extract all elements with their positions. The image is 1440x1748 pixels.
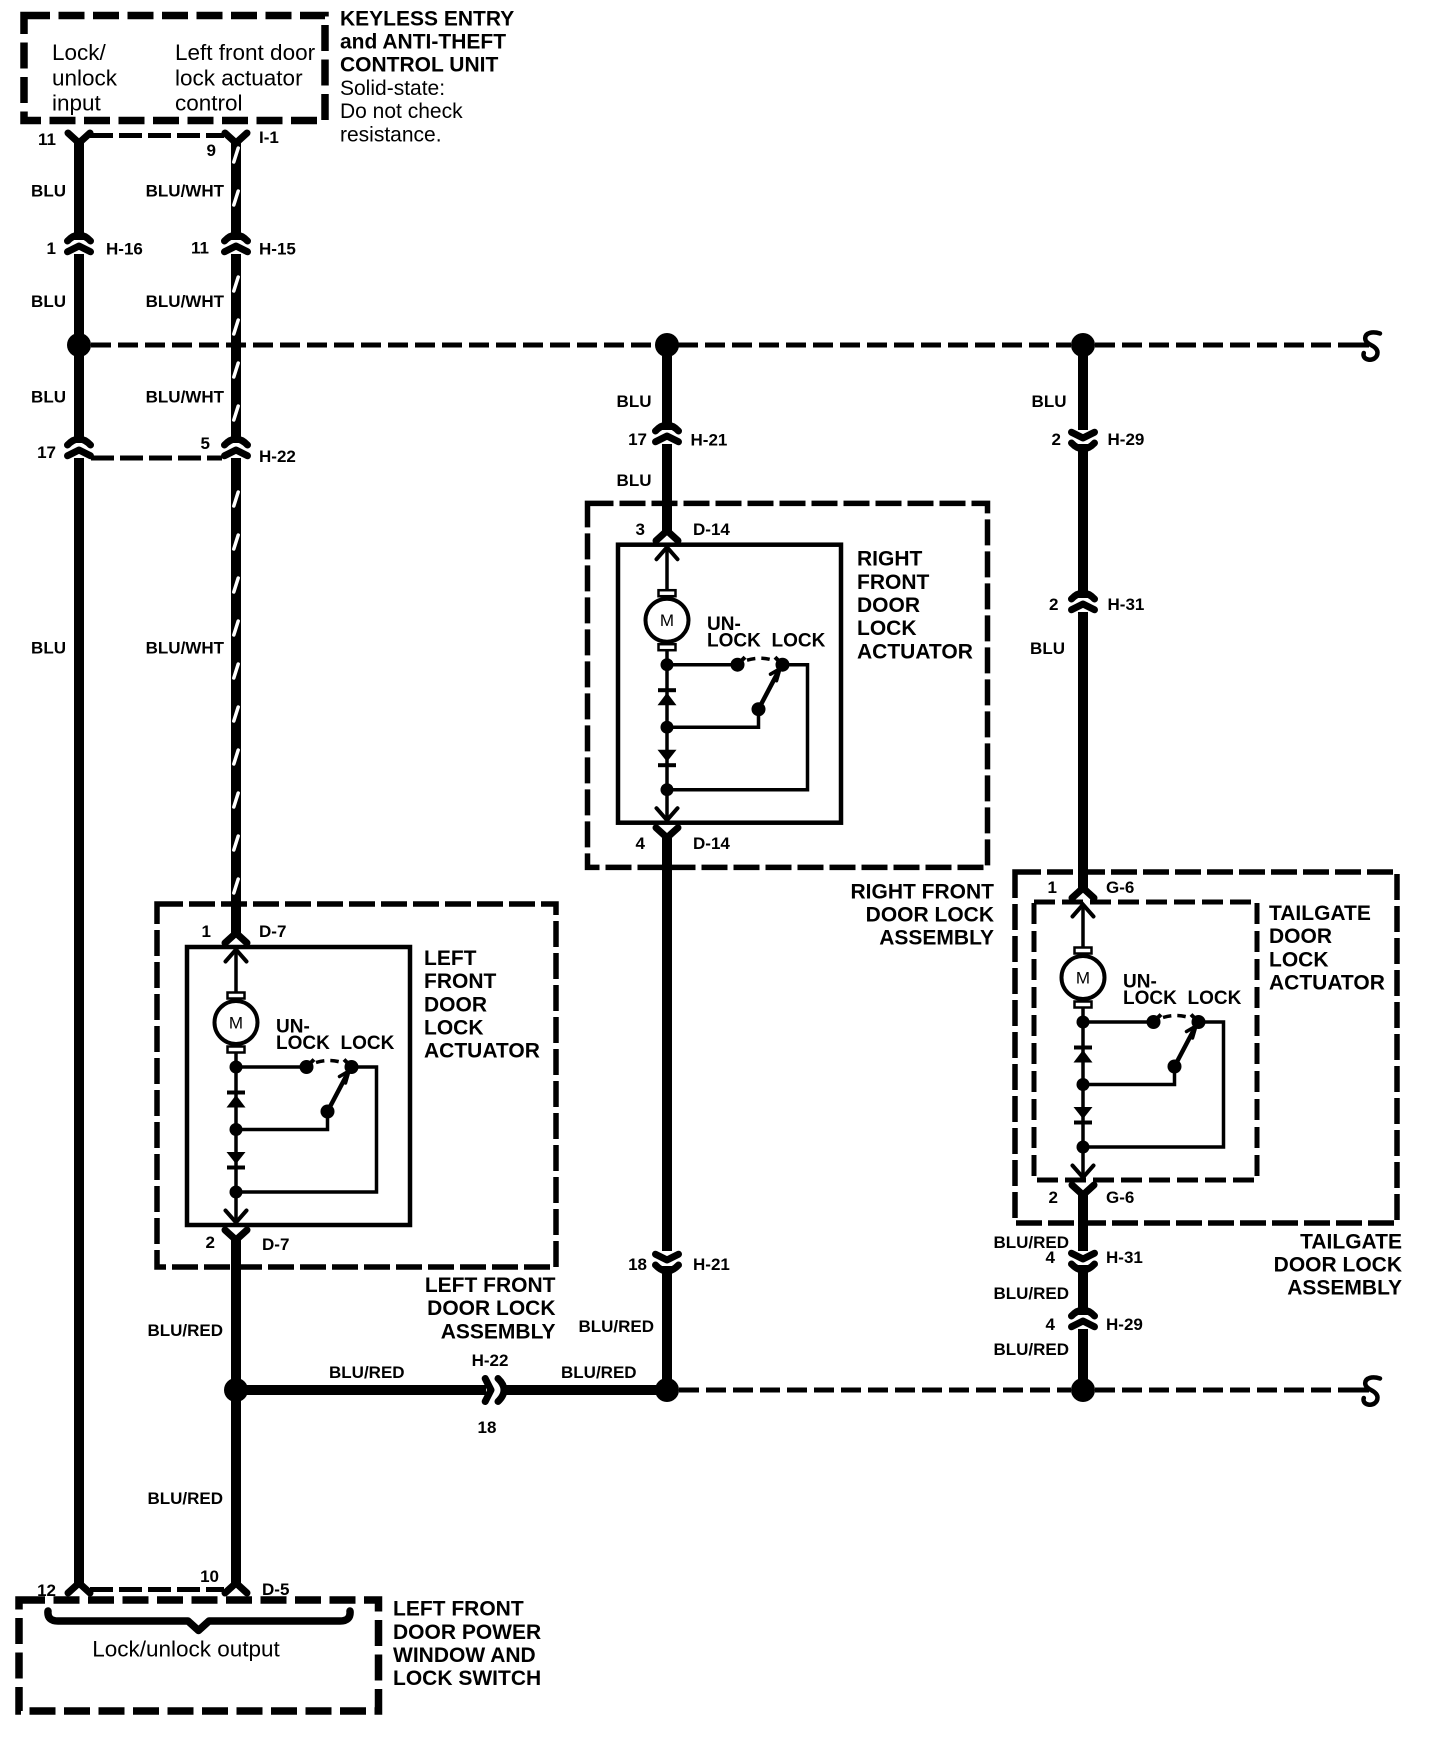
svg-text:WINDOW AND: WINDOW AND [393, 1644, 536, 1667]
left actuator junction dot A [230, 1061, 243, 1074]
left actuator diode D1 triangle [227, 1095, 246, 1108]
svg-text:LEFT: LEFT [424, 947, 477, 970]
right actuator UN-LOCK contact dot [731, 658, 745, 672]
right actuator arrowhead up at pin 1 [657, 547, 678, 559]
svg-text:D-7: D-7 [259, 922, 286, 941]
svg-text:1: 1 [202, 922, 211, 941]
connector H-15 [225, 235, 248, 241]
tailgate actuator UN-LOCK contact stub [1154, 1015, 1162, 1023]
svg-text:BLU: BLU [617, 392, 652, 411]
svg-text:LEFT FRONT: LEFT FRONT [393, 1598, 524, 1621]
left actuator switch travel dashed arc [316, 1061, 342, 1063]
left actuator switch pivot dot [321, 1105, 335, 1119]
pin 10 flare [225, 1583, 247, 1593]
svg-text:lock actuator: lock actuator [175, 65, 303, 90]
right actuator UN-LOCK contact stub [738, 657, 746, 665]
svg-text:4: 4 [1046, 1248, 1056, 1267]
svg-text:LOCK: LOCK [1188, 988, 1242, 1009]
tailgate actuator wire motor to bottom [1081, 1008, 1085, 1179]
svg-text:BLU/RED: BLU/RED [993, 1233, 1069, 1252]
svg-text:Solid-state:: Solid-state: [340, 77, 445, 100]
svg-text:BLU/RED: BLU/RED [147, 1489, 223, 1508]
tailgate actuator diode D2 triangle [1074, 1107, 1093, 1119]
right actuator diode D1 cathode bar [658, 688, 676, 692]
svg-text:and ANTI-THEFT: and ANTI-THEFT [340, 31, 506, 54]
wire BLU right seg2 [1078, 444, 1088, 598]
wire BLU/WHT seg1 [231, 143, 241, 240]
svg-text:H-22: H-22 [472, 1351, 509, 1370]
wire BLU/RED horizontal right [501, 1385, 667, 1395]
tailgate actuator wire branch to switch pivot [1083, 1067, 1175, 1085]
right actuator LOCK contact dot [776, 658, 790, 672]
right actuator wire branch to switch pivot [667, 709, 759, 727]
svg-text:control: control [175, 91, 243, 116]
junction dot W4-horizontal [1071, 1378, 1095, 1402]
svg-text:G-6: G-6 [1106, 878, 1134, 897]
dashed jumper 12 to 10 [90, 1587, 224, 1592]
pin 11 flare [68, 133, 90, 143]
svg-text:unlock: unlock [52, 65, 118, 90]
svg-text:DOOR LOCK: DOOR LOCK [866, 904, 994, 927]
svg-text:2: 2 [206, 1233, 215, 1252]
svg-text:BLU: BLU [31, 388, 66, 407]
wire BLU/WHT seg3 [231, 458, 241, 933]
tailgate actuator diode D1 cathode bar [1074, 1046, 1092, 1050]
junction dot W3-horizontal [655, 1378, 679, 1402]
junction dot W4-bus [1071, 333, 1095, 357]
tailgate actuator diode D2 cathode bar [1074, 1121, 1092, 1125]
wire BLU seg2 [74, 254, 84, 345]
svg-text:H-21: H-21 [691, 431, 728, 450]
left actuator arrowhead down at pin 2 [226, 1211, 247, 1223]
svg-text:LOCK SWITCH: LOCK SWITCH [393, 1667, 541, 1690]
svg-text:LEFT FRONT: LEFT FRONT [425, 1274, 556, 1297]
svg-text:BLU: BLU [1032, 392, 1067, 411]
svg-text:H-21: H-21 [693, 1255, 730, 1274]
right actuator actuator inner box [618, 545, 841, 823]
left actuator motor M circle [215, 1001, 258, 1044]
wire BLU mid seg1 [662, 345, 672, 430]
dashed bus segment 1 [91, 343, 656, 348]
tailgate actuator diode D1 triangle [1074, 1050, 1093, 1063]
tailgate actuator motor terminal bottom [1075, 1002, 1092, 1008]
svg-text:BLU: BLU [31, 639, 66, 658]
svg-text:Lock/unlock output: Lock/unlock output [92, 1637, 280, 1662]
left actuator switch blade [328, 1074, 348, 1112]
svg-text:H-22: H-22 [259, 447, 296, 466]
tailgate actuator UN-LOCK contact dot [1147, 1015, 1161, 1029]
left actuator wire branch to switch pivot [236, 1112, 328, 1130]
svg-text:Do not check: Do not check [340, 100, 463, 123]
wire BLU/RED right seg1 [1078, 1195, 1088, 1251]
left front door power window and lock switch box [19, 1600, 379, 1711]
svg-text:D-7: D-7 [262, 1235, 289, 1254]
svg-text:LOCK: LOCK [424, 1017, 484, 1040]
svg-text:Left front door: Left front door [175, 40, 316, 65]
right actuator diode D2 cathode bar [658, 763, 676, 767]
left actuator diode D2 triangle [227, 1152, 246, 1164]
svg-text:3: 3 [636, 520, 645, 539]
svg-text:DOOR LOCK: DOOR LOCK [427, 1297, 555, 1320]
right actuator motor terminal top [659, 590, 676, 596]
right actuator motor M circle [646, 599, 689, 642]
connector G-6 pin1 flare [1072, 888, 1094, 898]
tailgate actuator motor M circle [1062, 956, 1105, 999]
svg-text:Lock/: Lock/ [52, 40, 107, 65]
tailgate actuator junction dot C [1077, 1141, 1090, 1154]
svg-text:10: 10 [200, 1567, 219, 1586]
svg-text:H-15: H-15 [259, 240, 296, 259]
tailgate actuator switch blade arrowhead [1187, 1026, 1197, 1038]
junction dot W3-bus [655, 333, 679, 357]
connector D-7 pin2 flare [225, 1230, 247, 1240]
svg-text:CONTROL UNIT: CONTROL UNIT [340, 54, 498, 77]
left actuator actuator inner box [187, 947, 410, 1225]
svg-text:ASSEMBLY: ASSEMBLY [441, 1320, 556, 1343]
tailgate actuator motor terminal top [1075, 948, 1092, 954]
svg-text:18: 18 [478, 1418, 497, 1437]
left actuator diode D2 cathode bar [227, 1166, 245, 1170]
wire BLU/RED mid seg2 [662, 1266, 672, 1390]
left actuator UN-LOCK contact dot [300, 1060, 314, 1074]
svg-text:11: 11 [38, 130, 56, 149]
svg-text:BLU/RED: BLU/RED [561, 1363, 637, 1382]
left actuator LOCK contact stub [344, 1060, 352, 1068]
svg-text:BLU/RED: BLU/RED [993, 1284, 1069, 1303]
svg-text:17: 17 [628, 430, 647, 449]
wire BLU seg3 [74, 345, 84, 443]
svg-text:LOCK: LOCK [276, 1033, 330, 1054]
wire BLU/RED left seg2 [231, 1390, 241, 1583]
svg-text:TAILGATE: TAILGATE [1269, 902, 1371, 925]
svg-text:DOOR: DOOR [1269, 925, 1332, 948]
svg-text:H-16: H-16 [106, 240, 143, 259]
svg-text:LOCK: LOCK [772, 631, 826, 652]
connector H-22 horizontal [485, 1379, 491, 1402]
connector H-22 (pin5) [225, 439, 248, 445]
svg-text:M: M [229, 1014, 243, 1033]
tailgate actuator wire LOCK contact to right branch [1083, 1022, 1224, 1147]
tailgate actuator actuator inner box (dashed) [1034, 902, 1257, 1180]
svg-text:ASSEMBLY: ASSEMBLY [1287, 1277, 1402, 1300]
connector 17 (left wire) [68, 439, 91, 445]
svg-text:5: 5 [201, 434, 210, 453]
svg-text:BLU/RED: BLU/RED [578, 1317, 654, 1336]
junction dot W1-bus [67, 333, 91, 357]
svg-text:BLU/RED: BLU/RED [147, 1321, 223, 1340]
tailgate assembly dashed box [1015, 872, 1397, 1223]
connector H-29 (pin2) [1072, 443, 1095, 449]
svg-text:ACTUATOR: ACTUATOR [857, 640, 973, 663]
left actuator arrowhead up at pin 1 [226, 950, 247, 962]
svg-text:LOCK: LOCK [1123, 988, 1177, 1009]
wire BLU seg4 [74, 458, 84, 1583]
tailgate actuator wire branch to UN-LOCK contact [1083, 1020, 1154, 1024]
svg-text:FRONT: FRONT [857, 571, 929, 594]
keyless entry control unit box [24, 16, 325, 121]
dashed bus segment 3 [1095, 343, 1360, 348]
svg-text:H-31: H-31 [1106, 1248, 1143, 1267]
svg-text:1: 1 [1048, 878, 1057, 897]
svg-text:11: 11 [191, 239, 209, 258]
connector D-14 pin4 flare [656, 828, 678, 838]
connector H-21 (pin18) [656, 1265, 679, 1271]
svg-text:M: M [1076, 969, 1090, 988]
left actuator LOCK contact dot [345, 1060, 359, 1074]
left actuator UN-LOCK contact stub [307, 1060, 315, 1068]
tailgate actuator arrowhead down at pin 2 [1073, 1166, 1094, 1178]
svg-text:BLU/RED: BLU/RED [993, 1340, 1069, 1359]
svg-text:BLU: BLU [617, 471, 652, 490]
svg-text:2: 2 [1049, 1188, 1058, 1207]
wire BLU/RED horizontal left [236, 1385, 486, 1395]
svg-text:KEYLESS ENTRY: KEYLESS ENTRY [340, 7, 514, 30]
tailgate actuator LOCK contact dot [1192, 1015, 1206, 1029]
connector G-6 pin2 flare [1072, 1185, 1094, 1195]
dashed horizontal segment 2 [1095, 1388, 1360, 1393]
pin 9 flare [225, 133, 247, 143]
left assembly dashed box [157, 904, 556, 1267]
svg-text:D-14: D-14 [693, 520, 730, 539]
tailgate actuator switch blade [1175, 1029, 1195, 1067]
right actuator switch blade arrowhead [771, 669, 781, 681]
svg-text:4: 4 [636, 834, 646, 853]
wire BLU right seg1 [1078, 345, 1088, 430]
svg-text:BLU: BLU [1030, 639, 1065, 658]
svg-text:G-6: G-6 [1106, 1188, 1134, 1207]
svg-text:BLU/WHT: BLU/WHT [146, 388, 225, 407]
svg-text:resistance.: resistance. [340, 123, 442, 146]
tailgate actuator junction dot B [1077, 1078, 1090, 1091]
pin 12 flare [68, 1583, 90, 1593]
left actuator junction dot C [230, 1186, 243, 1199]
svg-text:LOCK: LOCK [857, 617, 917, 640]
svg-text:DOOR POWER: DOOR POWER [393, 1621, 541, 1644]
right actuator junction dot B [661, 721, 674, 734]
wire BLU seg1 [74, 143, 84, 240]
left actuator wire internal vertical [234, 949, 238, 993]
svg-text:17: 17 [37, 443, 56, 462]
connector H-21 (pin17) [656, 425, 679, 431]
svg-text:LOCK: LOCK [341, 1033, 395, 1054]
dashed horizontal segment 1 [679, 1388, 1071, 1393]
tailgate actuator junction dot A [1077, 1016, 1090, 1029]
left actuator wire motor to bottom [234, 1053, 238, 1224]
right actuator junction dot C [661, 783, 674, 796]
svg-text:ACTUATOR: ACTUATOR [1269, 972, 1385, 995]
connector H-31 (pin2) [1072, 593, 1095, 599]
svg-text:DOOR LOCK: DOOR LOCK [1274, 1254, 1402, 1277]
right actuator switch travel dashed arc [747, 658, 773, 660]
horizontal break symbol [1351, 1388, 1369, 1393]
dashed bus segment 2 [678, 343, 1071, 348]
connector H-31 (pin4) [1072, 1264, 1095, 1270]
right assembly dashed box [588, 503, 988, 867]
wire BLU/RED right seg3 [1078, 1329, 1088, 1390]
connector D-14 pin3 flare [656, 531, 678, 541]
right actuator switch pivot dot [752, 702, 766, 716]
tailgate actuator switch pivot dot [1168, 1060, 1182, 1074]
right actuator arrowhead down at pin 2 [657, 808, 678, 820]
svg-text:input: input [52, 91, 102, 116]
dashed jumper 17 to 5 [91, 456, 222, 461]
svg-text:BLU: BLU [31, 182, 66, 201]
left actuator wire LOCK contact to right branch [236, 1067, 377, 1192]
dashed jumper pin 11 to pin 9 [90, 133, 224, 138]
svg-text:18: 18 [628, 1255, 647, 1274]
svg-text:D-5: D-5 [262, 1580, 289, 1599]
svg-text:DOOR: DOOR [424, 993, 487, 1016]
svg-text:9: 9 [207, 141, 216, 160]
svg-text:BLU: BLU [31, 292, 66, 311]
wire BLU/RED right seg2 [1078, 1265, 1088, 1315]
wire BLU right seg3 [1078, 612, 1088, 888]
left actuator diode D1 cathode bar [227, 1091, 245, 1095]
left actuator motor terminal bottom [228, 1047, 245, 1053]
svg-text:ASSEMBLY: ASSEMBLY [879, 927, 994, 950]
svg-text:H-31: H-31 [1108, 595, 1145, 614]
svg-text:DOOR: DOOR [857, 594, 920, 617]
tailgate actuator switch travel dashed arc [1163, 1016, 1189, 1018]
tailgate actuator LOCK contact stub [1191, 1015, 1199, 1023]
right actuator wire motor to bottom [665, 650, 669, 821]
connector D-7 pin1 flare [225, 933, 247, 943]
svg-text:LOCK: LOCK [707, 631, 761, 652]
right actuator wire branch to UN-LOCK contact [667, 663, 738, 667]
wire BLU/RED mid seg1 [662, 838, 672, 1251]
connector H-29 (pin4) [1072, 1310, 1095, 1316]
svg-text:TAILGATE: TAILGATE [1300, 1230, 1402, 1253]
svg-text:4: 4 [1046, 1315, 1056, 1334]
right actuator wire LOCK contact to right branch [667, 665, 808, 790]
right actuator wire internal vertical [665, 547, 669, 591]
svg-text:FRONT: FRONT [424, 970, 496, 993]
left actuator wire branch to UN-LOCK contact [236, 1065, 307, 1069]
right actuator switch blade [759, 671, 779, 709]
svg-text:BLU/WHT: BLU/WHT [146, 182, 225, 201]
left actuator motor terminal top [228, 993, 245, 999]
svg-text:LOCK: LOCK [1269, 948, 1329, 971]
svg-text:2: 2 [1049, 595, 1058, 614]
left actuator junction dot B [230, 1123, 243, 1136]
wire BLU/WHT seg2 [231, 254, 241, 443]
svg-text:D-14: D-14 [693, 834, 730, 853]
svg-text:RIGHT: RIGHT [857, 548, 923, 571]
wire BLU mid seg2 [662, 444, 672, 531]
right actuator motor terminal bottom [659, 644, 676, 650]
connector H-16 [68, 235, 91, 241]
junction dot W2-horizontal [224, 1378, 248, 1402]
svg-text:BLU/RED: BLU/RED [329, 1363, 405, 1382]
svg-text:M: M [660, 611, 674, 630]
svg-text:H-29: H-29 [1108, 430, 1145, 449]
svg-text:BLU/WHT: BLU/WHT [146, 639, 225, 658]
svg-text:RIGHT FRONT: RIGHT FRONT [851, 880, 995, 903]
tailgate actuator wire internal vertical [1081, 904, 1085, 948]
right actuator diode D1 triangle [658, 693, 677, 706]
bus break symbol [1351, 343, 1369, 348]
brace lock/unlock output [48, 1611, 350, 1631]
svg-text:2: 2 [1052, 430, 1061, 449]
right actuator LOCK contact stub [775, 657, 783, 665]
svg-text:ACTUATOR: ACTUATOR [424, 1040, 540, 1063]
white stripes on BLU/WHT wire [234, 148, 238, 162]
svg-text:BLU/WHT: BLU/WHT [146, 292, 225, 311]
wire BLU/RED left seg1 [231, 1240, 241, 1390]
right actuator diode D2 triangle [658, 750, 677, 762]
svg-text:H-29: H-29 [1106, 1315, 1143, 1334]
left actuator switch blade arrowhead [340, 1071, 350, 1083]
right actuator junction dot A [661, 658, 674, 671]
svg-text:1: 1 [47, 239, 56, 258]
svg-text:I-1: I-1 [259, 128, 279, 147]
tailgate actuator arrowhead up at pin 1 [1073, 905, 1094, 917]
